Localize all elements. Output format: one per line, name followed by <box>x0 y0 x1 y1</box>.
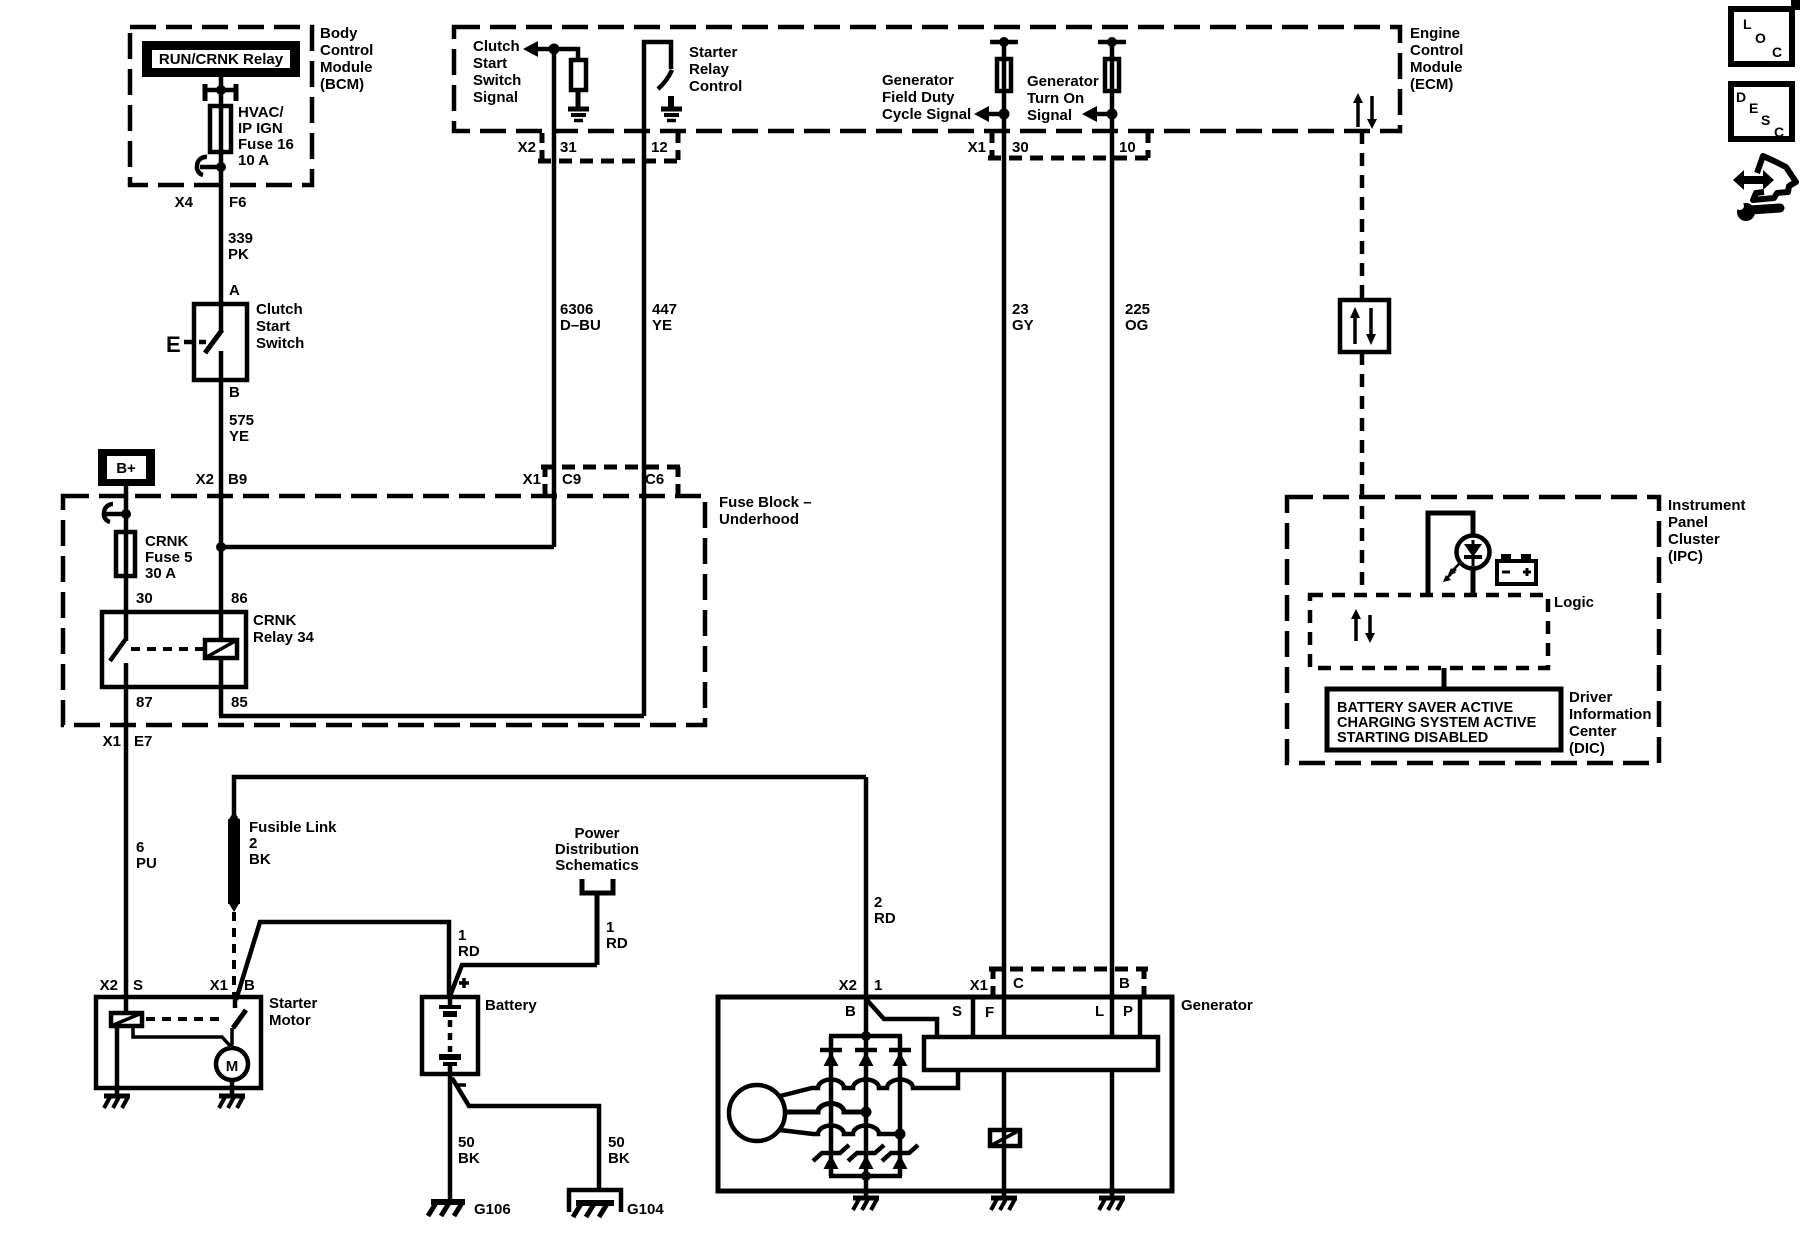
svg-text:RD: RD <box>458 943 480 960</box>
svg-text:YE: YE <box>652 317 672 334</box>
svg-text:30: 30 <box>1012 139 1029 156</box>
svg-text:D: D <box>1736 89 1746 105</box>
svg-text:P: P <box>1123 1003 1133 1020</box>
node E link to clutch switch <box>166 332 206 357</box>
svg-text:339: 339 <box>228 230 253 247</box>
svg-text:RD: RD <box>606 935 628 952</box>
svg-text:B: B <box>845 1003 856 1020</box>
starter solenoid coil <box>111 1013 142 1026</box>
svg-text:Engine: Engine <box>1410 25 1460 42</box>
svg-text:GY: GY <box>1012 317 1034 334</box>
svg-text:B: B <box>244 977 255 994</box>
stator phase A with crossovers to P <box>780 1070 958 1096</box>
svg-text:S: S <box>952 1003 962 1020</box>
wire 447 YE pin 12 down to C6 <box>644 131 677 716</box>
wire L to ground <box>1110 1070 1115 1191</box>
zener diode D4 bottom <box>813 1145 849 1169</box>
zener diode D5 bottom <box>848 1145 884 1169</box>
wire 6306 D-BU pin 31 down to C9 <box>554 49 601 547</box>
svg-text:Distribution: Distribution <box>555 841 639 858</box>
svg-text:Schematics: Schematics <box>555 857 638 874</box>
fuse F16 HVAC/IP IGN 10A <box>210 104 294 169</box>
wire battery negative to G106 <box>448 1074 453 1202</box>
svg-text:1: 1 <box>874 977 882 994</box>
svg-text:X2: X2 <box>839 977 857 994</box>
resistor generator field duty <box>997 59 1011 91</box>
svg-text:Fusible Link: Fusible Link <box>249 819 337 836</box>
rectifier bridge column 1 <box>829 1036 834 1176</box>
node junction on pin31 wire <box>549 44 560 55</box>
fuse block box <box>63 494 812 725</box>
svg-text:86: 86 <box>231 590 248 607</box>
DIC message box <box>1327 689 1561 750</box>
svg-text:X1: X1 <box>968 139 986 156</box>
starter motor box <box>96 995 318 1088</box>
fuse F5 CRNK 30A <box>116 532 193 582</box>
ground G104 <box>569 1190 664 1218</box>
svg-text:Information: Information <box>1569 706 1652 723</box>
svg-text:BATTERY SAVER ACTIVE: BATTERY SAVER ACTIVE <box>1337 700 1513 716</box>
svg-text:D–BU: D–BU <box>560 317 601 334</box>
wire junction B9 to C9 <box>216 542 554 552</box>
connector X1 C9 C6 strip <box>523 467 682 498</box>
svg-text:B9: B9 <box>228 471 247 488</box>
svg-text:RD: RD <box>874 910 896 927</box>
rectifier bridge column 3 <box>898 1036 903 1176</box>
svg-text:Battery: Battery <box>485 997 537 1014</box>
label Clutch Start Switch Signal <box>473 38 521 106</box>
svg-text:6306: 6306 <box>560 301 593 318</box>
svg-text:575: 575 <box>229 412 254 429</box>
starter B stub <box>233 997 238 1008</box>
svg-text:Clutch: Clutch <box>256 301 303 318</box>
svg-text:E: E <box>166 332 181 357</box>
svg-text:(IPC): (IPC) <box>1668 548 1703 565</box>
battery telltale icon <box>1497 554 1536 584</box>
svg-text:Signal: Signal <box>473 89 518 106</box>
power distribution reference <box>555 825 639 965</box>
LED charge indicator <box>1457 536 1490 569</box>
ground generator L <box>1099 1191 1125 1210</box>
node junction field duty <box>999 109 1010 120</box>
svg-text:F: F <box>985 1004 994 1021</box>
svg-text:Relay: Relay <box>689 61 730 78</box>
generator box <box>718 997 1253 1191</box>
svg-text:X2: X2 <box>196 471 214 488</box>
svg-text:PK: PK <box>228 246 249 263</box>
pin X4 / F6 <box>175 194 247 211</box>
svg-text:Starter: Starter <box>689 44 738 61</box>
svg-text:31: 31 <box>560 139 577 156</box>
svg-text:Cluster: Cluster <box>1668 531 1720 548</box>
module box BCM <box>130 25 373 185</box>
fusible link 2 BK <box>228 811 337 912</box>
pin X2 / 1 generator <box>839 977 883 994</box>
svg-text:STARTING DISABLED: STARTING DISABLED <box>1337 730 1488 746</box>
rectifier bottom bus <box>829 1171 902 1181</box>
zener diode D6 bottom <box>882 1145 918 1169</box>
starter switch blade <box>233 1010 246 1028</box>
svg-text:BK: BK <box>608 1150 630 1167</box>
svg-text:CHARGING SYSTEM ACTIVE: CHARGING SYSTEM ACTIVE <box>1337 715 1537 731</box>
svg-text:Control: Control <box>320 42 373 59</box>
relay coil 86-85 <box>205 640 237 658</box>
dashed wire fusible link to starter B <box>232 912 236 999</box>
wire F to field coil <box>1002 1070 1007 1191</box>
svg-text:Module: Module <box>1410 59 1463 76</box>
voltage regulator <box>924 1037 1158 1070</box>
svg-text:IP IGN: IP IGN <box>238 120 283 137</box>
relay RUN/CRNK Relay <box>142 41 300 77</box>
svg-text:X1: X1 <box>103 733 121 750</box>
resistor pull on 31 <box>554 49 586 108</box>
svg-text:X2: X2 <box>100 977 118 994</box>
svg-text:85: 85 <box>231 694 248 711</box>
svg-text:X2: X2 <box>518 139 536 156</box>
label Generator Turn On Signal <box>1027 73 1099 124</box>
wire from RUN/CRNK relay through fuse to X4/F6 <box>219 77 224 304</box>
pin X2 / B9 <box>196 471 248 488</box>
svg-text:Logic: Logic <box>1554 594 1594 611</box>
svg-text:B: B <box>1119 975 1130 992</box>
connector cell divider S/F <box>971 997 976 1037</box>
svg-text:10 A: 10 A <box>238 152 269 169</box>
wire 85 to C6 <box>219 658 644 716</box>
svg-text:YE: YE <box>229 428 249 445</box>
label Starter Relay Control <box>689 44 742 95</box>
label 50 BK right <box>608 1134 630 1167</box>
svg-text:C9: C9 <box>562 471 581 488</box>
svg-text:S: S <box>1761 112 1770 128</box>
svg-text:C6: C6 <box>645 471 664 488</box>
arrow generator field duty cycle signal <box>974 106 1004 122</box>
label 50 BK left <box>458 1134 480 1167</box>
svg-text:Start: Start <box>473 55 507 72</box>
svg-text:Center: Center <box>1569 723 1617 740</box>
wire battery negative to G104 <box>452 1078 599 1190</box>
ground starter motor <box>219 1088 245 1108</box>
svg-text:RUN/CRNK Relay: RUN/CRNK Relay <box>159 51 284 68</box>
wire 339 PK label <box>228 230 253 263</box>
ground generator F <box>991 1191 1017 1210</box>
svg-text:L: L <box>1095 1003 1104 1020</box>
svg-text:M: M <box>226 1058 239 1075</box>
label 1 RD battery feed <box>458 927 480 960</box>
svg-text:6: 6 <box>136 839 144 856</box>
connector X1 generator dashed <box>970 969 1148 997</box>
svg-text:A: A <box>229 282 240 299</box>
field coil <box>990 1130 1020 1146</box>
resistor generator turn on <box>1105 59 1119 91</box>
svg-text:OG: OG <box>1125 317 1148 334</box>
wire charge indicator loop <box>1428 513 1473 595</box>
svg-text:C: C <box>1013 975 1024 992</box>
connector terminal generator field duty <box>990 37 1018 47</box>
svg-text:447: 447 <box>652 301 677 318</box>
pin X1 / B starter <box>210 977 255 994</box>
svg-text:PU: PU <box>136 855 157 872</box>
svg-text:HVAC/: HVAC/ <box>238 104 284 121</box>
svg-text:225: 225 <box>1125 301 1150 318</box>
svg-text:Instrument: Instrument <box>1668 497 1746 514</box>
wire battery positive bus top <box>234 777 866 817</box>
svg-text:B+: B+ <box>116 460 136 477</box>
svg-text:Control: Control <box>1410 42 1463 59</box>
serial data dashed wire to IPC <box>1360 352 1365 595</box>
connector terminal generator turn on <box>1098 37 1126 47</box>
icon LOC box <box>1731 9 1792 64</box>
svg-text:X1: X1 <box>523 471 541 488</box>
wire starter B to battery positive <box>236 922 449 1000</box>
svg-text:L: L <box>1743 16 1752 32</box>
relay actuation dashed link <box>131 647 203 651</box>
svg-text:S: S <box>133 977 143 994</box>
svg-text:12: 12 <box>651 139 668 156</box>
svg-text:G106: G106 <box>474 1201 511 1218</box>
switch S1 Clutch Start Switch <box>194 301 304 380</box>
svg-text:F6: F6 <box>229 194 247 211</box>
svg-text:Motor: Motor <box>269 1012 311 1029</box>
svg-text:87: 87 <box>136 694 153 711</box>
svg-text:2: 2 <box>874 894 882 911</box>
svg-text:10: 10 <box>1119 139 1136 156</box>
diode D1 top <box>820 1050 842 1066</box>
connector hook at B+ feed <box>104 504 131 522</box>
wire 6 PU E7 to starter S <box>126 725 157 1013</box>
svg-text:Switch: Switch <box>473 72 521 89</box>
label Generator Field Duty Cycle Signal <box>882 72 971 123</box>
svg-text:Turn On: Turn On <box>1027 90 1084 107</box>
starter solenoid ground leg <box>115 1026 120 1088</box>
svg-text:Start: Start <box>256 318 290 335</box>
pin labels L P inside <box>1095 1003 1133 1020</box>
svg-text:(DIC): (DIC) <box>1569 740 1605 757</box>
svg-text:1: 1 <box>606 919 614 936</box>
svg-text:CRNK: CRNK <box>253 612 296 629</box>
connector symbol under relay <box>203 84 238 101</box>
wire 2 RD to generator <box>866 777 896 997</box>
icon diagnostic arrows and wrench <box>1733 156 1796 221</box>
plus terminal label <box>459 978 469 988</box>
rectifier top bus <box>829 1031 902 1041</box>
ground generator B <box>853 1191 879 1210</box>
wire power distribution to battery positive <box>450 965 597 996</box>
svg-text:X4: X4 <box>175 194 194 211</box>
svg-text:Field Duty: Field Duty <box>882 89 955 106</box>
svg-text:G104: G104 <box>627 1201 664 1218</box>
relay switch blade 30-87 <box>110 612 126 725</box>
label 1 RD from power distribution <box>606 919 628 952</box>
wire 225 OG pin 10 down to generator B <box>1112 42 1150 1037</box>
svg-text:Signal: Signal <box>1027 107 1072 124</box>
svg-text:Relay 34: Relay 34 <box>253 629 315 646</box>
label Driver Information Center <box>1569 689 1652 757</box>
serial data dashed wire from ECM <box>1360 131 1365 300</box>
battery G <box>422 997 537 1074</box>
pin X2 / S starter <box>100 977 143 994</box>
svg-text:B: B <box>229 384 240 401</box>
ground G106 <box>428 1201 511 1218</box>
svg-text:Starter: Starter <box>269 995 318 1012</box>
svg-text:Underhood: Underhood <box>719 511 799 528</box>
connector cell divider right of P <box>1138 997 1143 1037</box>
svg-text:1: 1 <box>458 927 466 944</box>
wire 575 YE <box>221 380 254 640</box>
rectifier bridge column 2 / B output <box>864 997 869 1191</box>
pin X1 / E7 <box>103 733 153 750</box>
svg-text:CRNK: CRNK <box>145 533 188 550</box>
logic serial arrows <box>1351 609 1375 643</box>
svg-text:O: O <box>1755 30 1766 46</box>
module box IPC <box>1287 497 1746 763</box>
svg-text:X1: X1 <box>970 977 988 994</box>
svg-text:(BCM): (BCM) <box>320 76 364 93</box>
svg-text:Power: Power <box>574 825 619 842</box>
LED flash arrows <box>1443 562 1461 582</box>
arrow clutch start switch signal <box>523 41 554 57</box>
stator phase B to column 2 <box>785 1104 872 1118</box>
svg-text:Clutch: Clutch <box>473 38 520 55</box>
svg-text:X1: X1 <box>210 977 228 994</box>
svg-text:E7: E7 <box>134 733 152 750</box>
svg-text:E: E <box>1749 100 1758 116</box>
rotor <box>729 1085 785 1141</box>
svg-text:C: C <box>1774 124 1784 140</box>
svg-text:30: 30 <box>136 590 153 607</box>
motor M <box>216 1028 248 1088</box>
svg-text:Generator: Generator <box>882 72 954 89</box>
svg-text:50: 50 <box>458 1134 475 1151</box>
svg-text:Body: Body <box>320 25 358 42</box>
minus terminal label <box>456 1083 466 1087</box>
starter solenoid link wire <box>133 1026 232 1048</box>
connector X1 strip pins 30 10 <box>968 133 1152 158</box>
wire 23 GY pin 30 down to generator C <box>1004 42 1034 1037</box>
ground of resistor 31 <box>568 109 589 121</box>
serial data bus box <box>1340 300 1389 352</box>
svg-text:(ECM): (ECM) <box>1410 76 1453 93</box>
starter actuation dashed link <box>146 1017 222 1021</box>
scan speck top right <box>1791 0 1800 10</box>
pin labels S F inside <box>952 1003 994 1021</box>
switch starter relay control <box>644 42 672 131</box>
in-line connector hook at BCM exit <box>197 157 226 175</box>
svg-text:2: 2 <box>249 835 257 852</box>
serial data arrows in ECM <box>1353 93 1377 129</box>
icon DESC box <box>1731 84 1792 140</box>
module box ECM <box>454 25 1463 131</box>
arrow generator turn on signal <box>1082 106 1112 122</box>
connector X2 strip pins 31 12 <box>518 133 682 161</box>
svg-text:Control: Control <box>689 78 742 95</box>
svg-text:C: C <box>1772 44 1782 60</box>
svg-text:Fuse 5: Fuse 5 <box>145 549 193 566</box>
ground of starter relay control <box>661 96 682 121</box>
svg-text:Fuse Block –: Fuse Block – <box>719 494 812 511</box>
svg-text:Generator: Generator <box>1027 73 1099 90</box>
svg-text:BK: BK <box>249 851 271 868</box>
svg-text:23: 23 <box>1012 301 1029 318</box>
svg-text:50: 50 <box>608 1134 625 1151</box>
svg-text:Module: Module <box>320 59 373 76</box>
wire logic to DIC <box>1442 668 1447 689</box>
wire B to regulator S <box>866 999 937 1037</box>
stator phase C to column 3 <box>780 1126 906 1140</box>
svg-text:Driver: Driver <box>1569 689 1613 706</box>
logic box <box>1310 594 1594 668</box>
svg-text:Cycle Signal: Cycle Signal <box>882 106 971 123</box>
diode D3 top <box>889 1050 911 1066</box>
ground starter solenoid <box>104 1088 130 1108</box>
terminal B+ <box>98 449 155 486</box>
node junction turn on <box>1107 109 1118 120</box>
svg-text:30 A: 30 A <box>145 565 176 582</box>
svg-text:Switch: Switch <box>256 335 304 352</box>
svg-text:Panel: Panel <box>1668 514 1708 531</box>
relay K34 CRNK Relay box <box>102 612 315 687</box>
diode D2 top <box>855 1050 877 1066</box>
svg-text:BK: BK <box>458 1150 480 1167</box>
wire B+ feed to fuse 5 <box>124 486 129 612</box>
svg-text:Fuse 16: Fuse 16 <box>238 136 294 153</box>
svg-text:Generator: Generator <box>1181 997 1253 1014</box>
